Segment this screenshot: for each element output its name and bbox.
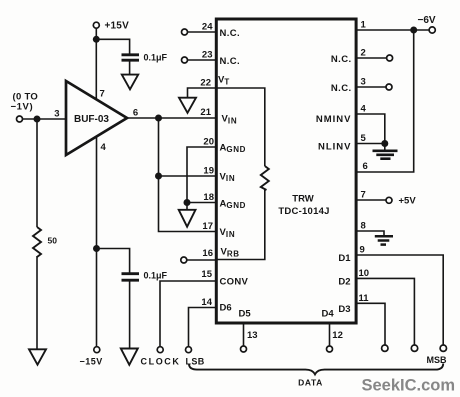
- terminal LSB: [186, 347, 192, 353]
- svg-text:N.C.: N.C.: [220, 28, 241, 39]
- node NLINV junction: [381, 140, 388, 147]
- svg-text:NLINV: NLINV: [318, 142, 352, 153]
- ground at pin 18: [179, 210, 196, 227]
- svg-text:−15V: −15V: [80, 357, 103, 367]
- wire node to IC pin 18: [187, 202, 216, 204]
- svg-text:−6V: −6V: [418, 15, 436, 26]
- svg-text:17: 17: [202, 221, 213, 232]
- chassis ground at pin 5: [373, 151, 398, 159]
- svg-text:16: 16: [202, 248, 213, 259]
- svg-text:TRW: TRW: [292, 194, 313, 205]
- svg-text:CLOCK: CLOCK: [141, 357, 181, 367]
- wire AGND node stem: [186, 203, 188, 210]
- svg-text:TDC-1014J: TDC-1014J: [278, 206, 329, 217]
- svg-text:VIN: VIN: [220, 227, 236, 239]
- wire pin 7 +5V: [356, 199, 386, 201]
- svg-text:2: 2: [361, 48, 366, 59]
- svg-text:21: 21: [200, 107, 211, 118]
- wire +15V to op-amp pin 7: [95, 28, 97, 99]
- resistor R1 50 ohm: [33, 227, 41, 257]
- wire +15V node to capacitor C1: [96, 39, 129, 54]
- wire IC pin 15 CONV to CLOCK: [160, 281, 216, 347]
- capacitor C1 0.1uF: [122, 55, 140, 60]
- svg-text:12: 12: [332, 330, 343, 341]
- svg-text:0.1μF: 0.1μF: [144, 53, 168, 63]
- svg-text:22: 22: [200, 78, 211, 89]
- wire pin 24: [188, 31, 217, 33]
- svg-text:−1V): −1V): [11, 102, 34, 113]
- wire pin 3 N.C.: [356, 86, 386, 88]
- terminal pin 2: [387, 55, 393, 61]
- wire IC pin 22 VT to ground: [188, 88, 217, 98]
- svg-text:N.C.: N.C.: [331, 54, 352, 65]
- wire pin 16: [187, 259, 216, 261]
- terminal -6V: [429, 27, 435, 33]
- svg-text:4: 4: [101, 142, 107, 153]
- node -15V junction: [93, 245, 100, 252]
- wire pin 11 D3: [356, 303, 385, 345]
- brace DATA bus: [189, 364, 443, 375]
- svg-text:D5: D5: [239, 309, 252, 320]
- terminal pin 16 VRB: [181, 257, 187, 263]
- svg-text:7: 7: [361, 190, 366, 201]
- ground at pin 22: [179, 98, 196, 113]
- svg-text:3: 3: [361, 77, 366, 88]
- terminal pin 24 N.C.: [182, 29, 188, 35]
- wire -6V rail down to pin 6: [356, 30, 414, 172]
- terminal +5V: [386, 197, 392, 203]
- svg-text:VIN: VIN: [222, 114, 238, 126]
- svg-text:MSB: MSB: [427, 355, 448, 365]
- wire input node down to resistor: [36, 119, 38, 227]
- svg-text:LSB: LSB: [186, 357, 205, 367]
- wire resistor to ground: [36, 256, 38, 349]
- svg-text:+15V: +15V: [105, 21, 130, 32]
- svg-text:11: 11: [359, 293, 370, 304]
- wire pin 4 NMINV to pin 5: [356, 114, 385, 144]
- wire NLINV stem: [384, 144, 386, 151]
- svg-text:8: 8: [361, 221, 366, 232]
- svg-text:13: 13: [247, 330, 258, 341]
- svg-text:50: 50: [48, 236, 58, 246]
- svg-text:D4: D4: [322, 309, 335, 320]
- resistor R2 internal VT-VRB: [261, 166, 269, 190]
- ground below R1: [29, 349, 46, 364]
- input terminal (0 TO -1V): [17, 116, 23, 122]
- svg-text:VIN: VIN: [220, 171, 236, 183]
- ground below C2: [121, 349, 138, 365]
- svg-text:19: 19: [203, 166, 214, 177]
- terminal pin 23 N.C.: [182, 57, 188, 63]
- terminal CLOCK: [157, 347, 163, 353]
- node VIN pin19 junction: [155, 173, 162, 180]
- wire pin 8 to ground: [356, 231, 384, 236]
- wire op-amp output pin 6 to IC pin 21: [127, 117, 216, 119]
- svg-text:6: 6: [133, 108, 138, 119]
- svg-text:VRB: VRB: [221, 247, 240, 259]
- svg-text:4: 4: [361, 104, 367, 115]
- terminal pin 3: [386, 84, 392, 90]
- svg-text:AGND: AGND: [220, 142, 246, 154]
- op-amp U1 BUF-03 body: [66, 81, 127, 155]
- svg-text:9: 9: [360, 245, 365, 256]
- svg-text:10: 10: [359, 268, 370, 279]
- terminal pin 12: [327, 346, 333, 352]
- svg-text:D2: D2: [338, 277, 350, 288]
- svg-text:CONV: CONV: [220, 277, 249, 288]
- wire op-amp pin 4 down to -15V: [96, 137, 98, 347]
- wire C2 to ground: [129, 281, 131, 349]
- terminal D1 MSB: [440, 345, 446, 351]
- svg-text:NMINV: NMINV: [316, 114, 352, 125]
- wire output trunk down to pin 17 level: [159, 118, 217, 232]
- capacitor C2 0.1uF: [122, 274, 140, 281]
- wire input to op-amp pin 3: [23, 118, 67, 120]
- wire pin 10 D2: [356, 278, 414, 345]
- node AGND junction: [184, 199, 191, 206]
- wire C1 to ground: [129, 61, 131, 75]
- svg-text:SeekIC.com: SeekIC.com: [362, 377, 456, 395]
- wire internal VT to resistor: [217, 88, 265, 166]
- svg-text:5: 5: [361, 133, 367, 144]
- chassis ground at pin 8: [375, 236, 393, 244]
- terminal D2: [411, 345, 417, 351]
- ground below C1: [122, 75, 138, 90]
- svg-text:0.1μF: 0.1μF: [144, 271, 168, 281]
- wire pin 5 NLINV: [356, 143, 385, 145]
- svg-text:D3: D3: [338, 304, 350, 315]
- wire -15V node to capacitor C2: [97, 249, 130, 274]
- node input junction: [34, 116, 41, 123]
- wire pin 2 N.C.: [356, 57, 387, 59]
- wire pin 13 D5: [243, 324, 245, 346]
- wire pin 23: [188, 59, 217, 61]
- svg-text:VT: VT: [218, 75, 230, 87]
- wire IC pin 14 D6 to LSB: [189, 308, 217, 347]
- terminal +15V: [93, 22, 99, 28]
- wire pin 9 D1 to MSB terminal: [356, 255, 443, 345]
- wire node to IC pin 19: [159, 175, 217, 177]
- svg-text:AGND: AGND: [220, 198, 246, 210]
- terminal pin 13: [241, 346, 247, 352]
- terminal -15V: [94, 347, 100, 353]
- IC U2 TDC-1014J body: [216, 19, 356, 323]
- svg-text:1: 1: [361, 20, 367, 31]
- svg-text:3: 3: [54, 109, 59, 120]
- svg-text:6: 6: [363, 161, 368, 172]
- node output junction: [155, 115, 162, 122]
- svg-text:24: 24: [202, 22, 213, 33]
- svg-text:N.C.: N.C.: [331, 83, 352, 94]
- svg-text:23: 23: [202, 50, 213, 61]
- svg-text:14: 14: [201, 297, 212, 308]
- svg-text:BUF-03: BUF-03: [74, 114, 109, 125]
- svg-text:7: 7: [100, 89, 105, 100]
- svg-text:D6: D6: [220, 303, 232, 314]
- wire pin 12 D4: [329, 324, 331, 346]
- wire IC pin 1 to -6V: [356, 29, 429, 31]
- svg-text:20: 20: [203, 137, 214, 148]
- wire IC pin 20 AGND down to pin 18: [187, 147, 216, 203]
- svg-text:18: 18: [203, 192, 214, 203]
- svg-text:15: 15: [201, 269, 212, 280]
- terminal D3: [382, 345, 388, 351]
- wire internal resistor to VRB: [217, 189, 265, 260]
- svg-text:D1: D1: [338, 253, 351, 264]
- svg-text:+5V: +5V: [399, 196, 417, 207]
- svg-text:N.C.: N.C.: [220, 56, 241, 67]
- node +15V junction: [93, 36, 100, 43]
- svg-text:DATA: DATA: [298, 378, 323, 388]
- node -6V junction: [410, 27, 417, 34]
